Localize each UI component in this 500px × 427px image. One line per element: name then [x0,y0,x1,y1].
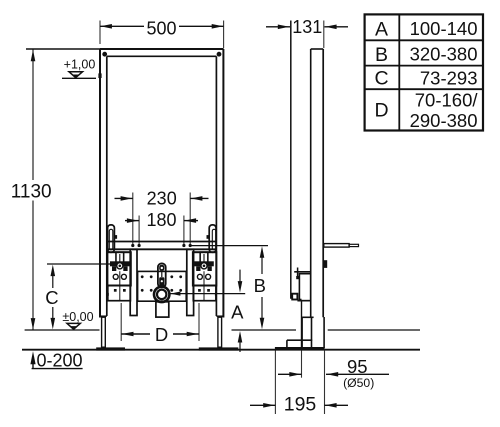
svg-text:500: 500 [146,18,176,38]
svg-text:±0,00: ±0,00 [62,310,93,324]
svg-text:95: 95 [347,356,368,377]
svg-text:100-140: 100-140 [410,18,478,39]
svg-text:195: 195 [284,393,317,415]
svg-text:290-380: 290-380 [410,110,478,131]
svg-text:320-380: 320-380 [410,44,478,65]
svg-text:+1,00: +1,00 [64,57,96,71]
svg-text:A: A [375,18,388,40]
svg-text:0-200: 0-200 [36,350,82,370]
svg-text:C: C [45,287,58,308]
svg-text:D: D [155,324,168,345]
svg-text:73-293: 73-293 [420,67,478,88]
svg-text:A: A [231,302,244,323]
svg-text:70-160/: 70-160/ [415,90,479,111]
svg-text:B: B [254,275,266,296]
svg-text:(Ø50): (Ø50) [343,376,374,390]
svg-text:131: 131 [292,17,322,37]
svg-text:230: 230 [147,188,177,208]
svg-text:1130: 1130 [11,181,52,202]
svg-text:C: C [374,67,388,89]
svg-text:180: 180 [146,210,176,230]
svg-text:B: B [375,44,388,66]
svg-text:D: D [374,100,388,122]
